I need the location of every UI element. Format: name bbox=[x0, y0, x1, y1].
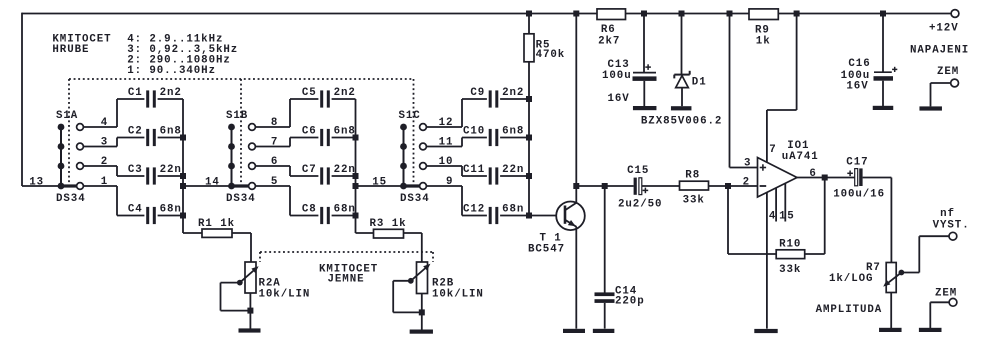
svg-text:2n2: 2n2 bbox=[502, 87, 524, 99]
svg-text:13: 13 bbox=[29, 177, 44, 189]
svg-text:C6: C6 bbox=[302, 126, 317, 138]
svg-text:68n: 68n bbox=[160, 204, 182, 216]
svg-text:2n2: 2n2 bbox=[334, 87, 356, 99]
svg-text:C17: C17 bbox=[846, 156, 868, 168]
svg-text:+12V: +12V bbox=[929, 23, 959, 35]
svg-text:DS34: DS34 bbox=[226, 193, 256, 205]
svg-text:6n8: 6n8 bbox=[160, 126, 182, 138]
svg-text:6: 6 bbox=[271, 156, 278, 168]
svg-text:3: 3 bbox=[101, 137, 108, 149]
svg-text:BC547: BC547 bbox=[528, 244, 565, 256]
svg-text:NAPAJENI: NAPAJENI bbox=[910, 44, 969, 56]
svg-text:VYST.: VYST. bbox=[933, 220, 970, 232]
svg-text:R1 1k: R1 1k bbox=[198, 218, 235, 230]
svg-text:ZEM: ZEM bbox=[937, 66, 959, 78]
svg-text:C11: C11 bbox=[463, 164, 485, 176]
svg-text:R8: R8 bbox=[685, 170, 700, 182]
svg-text:R3 1k: R3 1k bbox=[370, 218, 407, 230]
svg-text:uA741: uA741 bbox=[782, 151, 819, 163]
svg-text:11: 11 bbox=[439, 137, 454, 149]
svg-text:2: 2 bbox=[101, 156, 108, 168]
svg-text:C9: C9 bbox=[470, 87, 485, 99]
svg-text:10k/LIN: 10k/LIN bbox=[259, 289, 311, 301]
svg-text:AMPLITUDA: AMPLITUDA bbox=[816, 304, 883, 316]
svg-text:16V: 16V bbox=[608, 93, 630, 105]
svg-text:220p: 220p bbox=[615, 295, 645, 307]
svg-text:4: 4 bbox=[769, 211, 776, 223]
svg-text:33k: 33k bbox=[683, 194, 705, 206]
svg-text:JEMNE: JEMNE bbox=[328, 274, 365, 286]
svg-text:DS34: DS34 bbox=[400, 193, 430, 205]
svg-text:C15: C15 bbox=[627, 165, 649, 177]
svg-text:5: 5 bbox=[271, 176, 278, 188]
svg-text:C4: C4 bbox=[128, 204, 143, 216]
svg-text:22n: 22n bbox=[160, 164, 182, 176]
svg-text:1k/LOG: 1k/LOG bbox=[829, 273, 873, 285]
svg-text:1: 1 bbox=[779, 211, 786, 223]
svg-text:7: 7 bbox=[271, 137, 278, 149]
svg-text:DS34: DS34 bbox=[56, 193, 86, 205]
svg-text:2n2: 2n2 bbox=[160, 87, 182, 99]
svg-text:5: 5 bbox=[787, 211, 794, 223]
svg-text:33k: 33k bbox=[779, 264, 801, 276]
svg-text:68n: 68n bbox=[334, 204, 356, 216]
svg-text:1k: 1k bbox=[756, 36, 771, 48]
svg-text:68n: 68n bbox=[502, 204, 524, 216]
svg-text:9: 9 bbox=[446, 176, 453, 188]
svg-text:6n8: 6n8 bbox=[334, 126, 356, 138]
svg-text:22n: 22n bbox=[502, 164, 524, 176]
svg-text:1: 1 bbox=[101, 176, 108, 188]
svg-text:2: 2 bbox=[743, 177, 750, 189]
svg-text:C5: C5 bbox=[302, 87, 317, 99]
svg-text:100u/16: 100u/16 bbox=[833, 189, 885, 201]
svg-text:C10: C10 bbox=[463, 126, 485, 138]
svg-text:100u: 100u bbox=[602, 70, 632, 82]
svg-text:C3: C3 bbox=[128, 164, 143, 176]
svg-text:7: 7 bbox=[769, 144, 776, 156]
svg-text:HRUBE: HRUBE bbox=[52, 44, 89, 56]
svg-text:15: 15 bbox=[372, 177, 387, 189]
svg-text:S1A: S1A bbox=[56, 110, 78, 122]
svg-text:10k/LIN: 10k/LIN bbox=[432, 289, 484, 301]
svg-text:C16: C16 bbox=[848, 58, 870, 70]
svg-text:14: 14 bbox=[205, 177, 220, 189]
svg-text:C7: C7 bbox=[302, 164, 317, 176]
svg-text:12: 12 bbox=[439, 117, 454, 129]
svg-text:nf: nf bbox=[940, 208, 955, 220]
svg-text:6n8: 6n8 bbox=[502, 126, 524, 138]
svg-text:1: 90..340Hz: 1: 90..340Hz bbox=[127, 65, 216, 77]
svg-text:S1B: S1B bbox=[226, 110, 248, 122]
svg-text:C1: C1 bbox=[128, 87, 143, 99]
svg-text:10: 10 bbox=[439, 156, 454, 168]
svg-text:C12: C12 bbox=[463, 204, 485, 216]
svg-text:4: 4 bbox=[101, 117, 108, 129]
svg-text:D1: D1 bbox=[692, 77, 707, 89]
svg-text:16V: 16V bbox=[846, 81, 868, 93]
svg-text:22n: 22n bbox=[334, 164, 356, 176]
svg-text:470k: 470k bbox=[536, 49, 566, 61]
svg-text:3: 3 bbox=[744, 157, 751, 169]
svg-text:BZX85V006.2: BZX85V006.2 bbox=[641, 116, 722, 128]
svg-text:8: 8 bbox=[271, 117, 278, 129]
svg-text:C8: C8 bbox=[302, 204, 317, 216]
svg-text:R6: R6 bbox=[601, 24, 616, 36]
svg-text:2k7: 2k7 bbox=[598, 36, 620, 48]
svg-text:C2: C2 bbox=[128, 126, 143, 138]
svg-text:R10: R10 bbox=[779, 238, 801, 250]
svg-text:2u2/50: 2u2/50 bbox=[618, 198, 662, 210]
svg-text:S1C: S1C bbox=[399, 110, 421, 122]
